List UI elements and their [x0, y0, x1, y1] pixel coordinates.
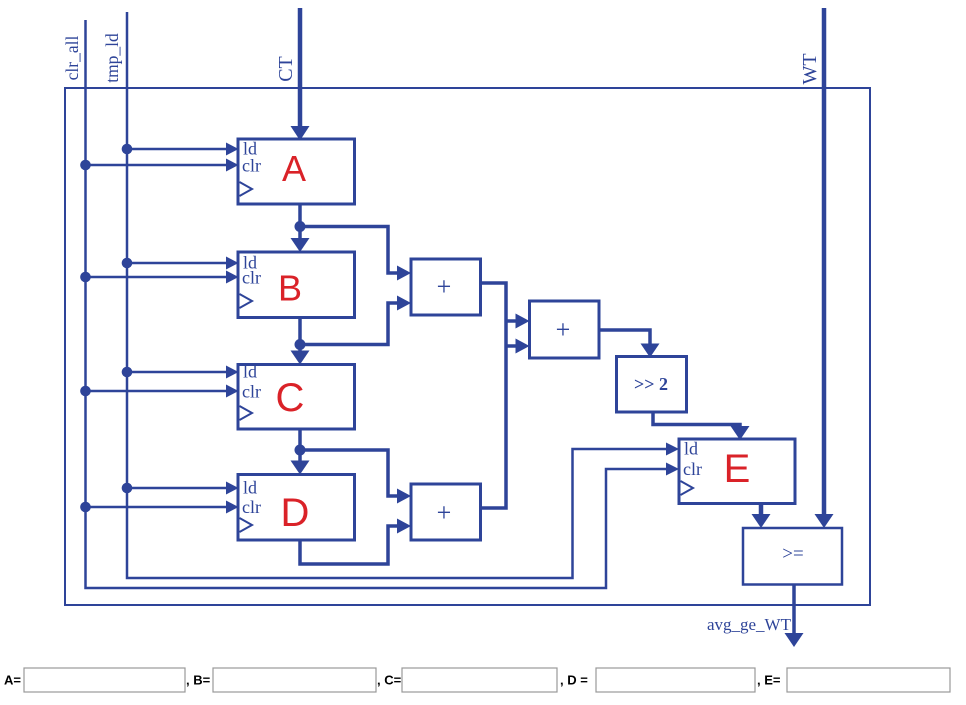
wire adder3 output to shifter: [599, 330, 660, 358]
answer input C: [402, 668, 557, 692]
register C: [238, 362, 355, 430]
svg-text:clr_all: clr_all: [62, 36, 82, 81]
svg-text:+: +: [437, 272, 452, 301]
wire C output to D and adder2: [291, 429, 412, 504]
register A: [238, 139, 355, 205]
svg-text:B: B: [278, 268, 302, 309]
junction clr_all to C.clr: [80, 386, 91, 397]
wire tmp_ld to D.ld: [127, 487, 226, 490]
wire clr_all to D.clr: [86, 506, 227, 509]
junction tmp_ld to D.ld: [122, 483, 133, 494]
adder U1 (A+B): [411, 259, 481, 315]
wire E output to comparator: [752, 504, 771, 529]
svg-text:>=: >=: [782, 544, 803, 565]
wire tmp_ld to C.ld: [127, 371, 226, 374]
wire A output to B and adder1: [291, 204, 412, 281]
svg-text:clr: clr: [683, 459, 702, 479]
adder U3 (sum): [530, 301, 600, 358]
shifter >>2: [617, 357, 687, 413]
register E: [679, 439, 795, 504]
svg-text:E: E: [724, 447, 751, 491]
svg-text:clr: clr: [242, 497, 261, 517]
svg-text:ld: ld: [243, 362, 257, 382]
wire adder1 output and adder2 output to adder3: [481, 283, 530, 508]
junction tmp_ld to C.ld: [122, 367, 133, 378]
enclosing system box: [65, 88, 870, 605]
junction clr_all to D.clr: [80, 502, 91, 513]
svg-text:A: A: [282, 148, 306, 189]
wire tmp_ld to B.ld: [127, 262, 226, 265]
junction clr_all to A.clr: [80, 160, 91, 171]
svg-text:+: +: [556, 315, 571, 344]
wire clr_all to C.clr: [86, 390, 227, 393]
answer input E: [787, 668, 950, 692]
wire tmp_ld to A.ld: [127, 148, 226, 151]
svg-text:>> 2: >> 2: [634, 374, 668, 394]
svg-text:A=: A=: [4, 673, 21, 688]
wire WT input: [822, 8, 827, 514]
wire shifter output to E: [653, 412, 750, 440]
answer input A: [24, 668, 185, 692]
comparator >=: [743, 528, 842, 585]
wire net tmp_ld trunk and feedback to E.ld: [127, 12, 666, 578]
register D: [238, 475, 355, 541]
junction clr_all to B.clr: [80, 272, 91, 283]
svg-text:clr: clr: [242, 156, 261, 176]
svg-text:D: D: [281, 491, 310, 535]
svg-text:, E=: , E=: [757, 673, 781, 688]
wire comparator output avg_ge_WT: [785, 585, 804, 648]
svg-text:+: +: [437, 498, 452, 527]
junction tmp_ld to A.ld: [122, 144, 133, 155]
svg-text:clr: clr: [242, 268, 261, 288]
svg-text:avg_ge_WT: avg_ge_WT: [707, 615, 792, 634]
wire B output to C and adder1: [291, 296, 412, 365]
wire net clr_all trunk and feedback to E.clr: [86, 20, 667, 588]
svg-text:clr: clr: [242, 382, 261, 402]
svg-text:tmp_ld: tmp_ld: [102, 33, 122, 83]
svg-text:, B=: , B=: [186, 673, 211, 688]
svg-text:WT: WT: [799, 53, 821, 84]
answer input B: [213, 668, 376, 692]
svg-text:ld: ld: [243, 478, 257, 498]
adder U2 (C+D): [411, 484, 481, 540]
junction tmp_ld to B.ld: [122, 258, 133, 269]
svg-text:CT: CT: [275, 56, 297, 82]
register B: [238, 252, 355, 318]
answer input D: [596, 668, 755, 692]
svg-text:, D =: , D =: [560, 673, 588, 688]
wire clr_all to A.clr: [86, 164, 227, 167]
wire CT input: [298, 8, 303, 126]
svg-text:ld: ld: [684, 439, 698, 459]
svg-text:, C=: , C=: [377, 673, 402, 688]
svg-text:C: C: [276, 376, 305, 420]
wire D output to adder2: [300, 519, 411, 565]
wire clr_all to B.clr: [86, 276, 227, 279]
